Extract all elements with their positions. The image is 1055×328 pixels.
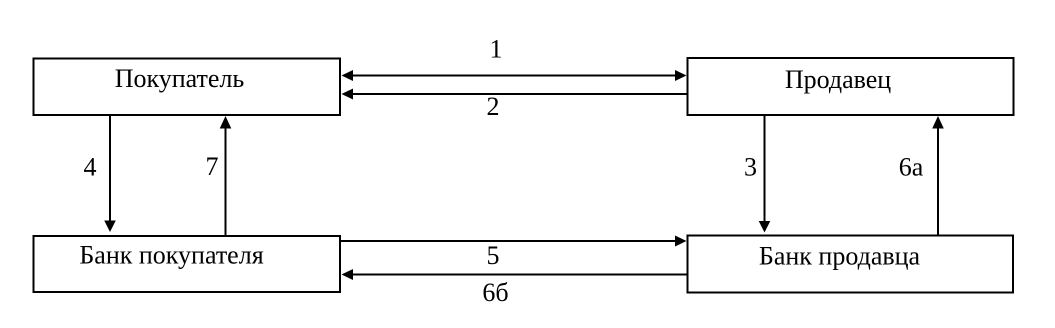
box Покупатель: [34, 59, 341, 116]
svg-text:4: 4: [84, 153, 97, 182]
box Банк покупателя: [34, 236, 341, 292]
arrow 6a (Банк продавца up to Продавец): [932, 116, 944, 236]
box Банк продавца: [688, 236, 1014, 293]
arrow 6б (Банк продавца to Банк покупателя): [342, 269, 688, 280]
arrow 1 (double-headed, Покупатель-Продавец): [342, 70, 687, 81]
svg-text:5: 5: [487, 241, 500, 270]
arrow 5 (Банк покупателя to Банк продавца): [341, 236, 687, 247]
svg-text:2: 2: [487, 92, 500, 121]
svg-text:Покупатель: Покупатель: [115, 64, 245, 93]
arrow 2 (Продавец to Покупатель): [342, 89, 688, 100]
arrow 7 (Банк покупателя up to Покупатель): [220, 116, 232, 235]
arrow 3 (Продавец down to Банк продавца): [759, 116, 771, 233]
svg-text:Банк продавца: Банк продавца: [759, 242, 921, 271]
svg-text:7: 7: [206, 152, 219, 181]
box Продавец: [688, 58, 1014, 115]
svg-text:Банк покупателя: Банк покупателя: [79, 241, 263, 270]
svg-text:Продавец: Продавец: [785, 65, 891, 94]
svg-text:6а: 6а: [899, 153, 924, 182]
svg-text:6б: 6б: [482, 278, 508, 307]
svg-text:1: 1: [490, 35, 503, 64]
svg-text:3: 3: [744, 153, 757, 182]
arrow 4 (Покупатель down to Банк покупателя): [104, 116, 116, 232]
